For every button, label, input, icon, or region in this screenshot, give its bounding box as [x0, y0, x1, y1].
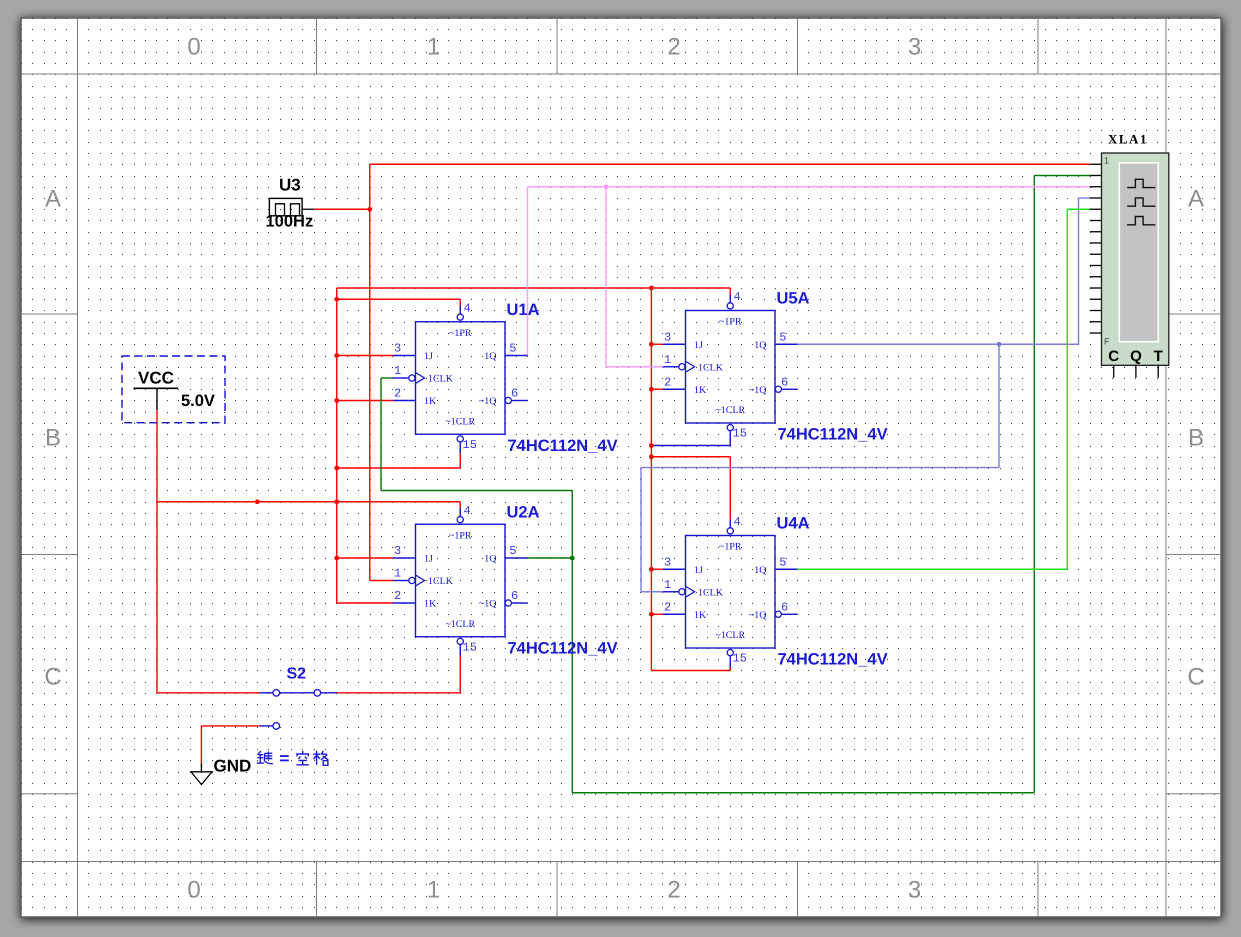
svg-text:~1Q: ~1Q: [479, 396, 497, 407]
wire: S2 lower throw to GND: [201, 725, 259, 727]
wire: clock net into U2A CLK pin 1: [370, 580, 393, 582]
svg-text:1K: 1K: [694, 385, 707, 396]
wire: VCC bus vertical x=336.75: [336, 288, 338, 603]
svg-text:5: 5: [779, 330, 786, 344]
svg-text:3: 3: [664, 330, 671, 344]
wire: VCC to U5A 1K pin 2: [651, 388, 663, 390]
svg-text:0: 0: [187, 34, 200, 61]
svg-text:2: 2: [664, 600, 671, 614]
wire: bright green net from U4A 1Q pin 5: [798, 568, 1068, 570]
svg-text:1: 1: [664, 578, 671, 592]
svg-text:T: T: [1154, 348, 1163, 365]
svg-text:1: 1: [427, 34, 440, 61]
svg-text:5: 5: [509, 544, 516, 558]
junction: pink net node: [604, 184, 609, 189]
svg-text:~1CLR: ~1CLR: [715, 630, 745, 641]
svg-text:Q: Q: [1130, 348, 1142, 365]
wire: clock net U3 output to junction: [314, 208, 370, 210]
svg-text:C: C: [44, 664, 61, 691]
svg-text:C: C: [1108, 348, 1119, 365]
svg-text:6: 6: [511, 589, 518, 603]
XLA1 bottom pins C, Q, T: [1108, 348, 1163, 378]
wire: purple net branch down x=999: [998, 344, 1000, 467]
wire: VCC to U2A 1K pin 2: [337, 602, 393, 604]
switch S2 (SPDT, key = space): [260, 690, 338, 730]
wire: U5A ~1CLR pin 15 to VCC bus (blue wire): [651, 438, 730, 446]
wire: VCC to U4A ~1PR pin 4: [651, 456, 730, 458]
wire: dark green net vertical x=572.25: [571, 491, 573, 793]
svg-text:~1PR: ~1PR: [719, 542, 742, 553]
svg-text:~1CLR: ~1CLR: [445, 416, 475, 427]
svg-text:1J: 1J: [424, 554, 433, 565]
svg-text:74HC112N_4V: 74HC112N_4V: [778, 426, 888, 444]
svg-text:1: 1: [427, 877, 440, 904]
svg-text:1J: 1J: [694, 565, 703, 576]
wire: VCC to U1A ~1PR pin 4: [337, 298, 461, 300]
svg-text:4: 4: [464, 301, 471, 315]
wire: dark green net bottom horizontal y=792.75: [572, 792, 1034, 794]
svg-text:1: 1: [394, 567, 401, 581]
svg-text:4: 4: [734, 515, 741, 529]
svg-text:1J: 1J: [694, 340, 703, 351]
equals sign of key label: [280, 755, 289, 761]
svg-text:F: F: [1104, 337, 1110, 347]
JK flip-flop U2A (74HC112N_4V): [393, 508, 528, 656]
svg-text:~1Q: ~1Q: [749, 610, 767, 621]
clock source U3 100Hz: [269, 198, 314, 215]
svg-text:C: C: [1187, 664, 1204, 691]
wire: VCC bus top horizontal y=288 to U5A bus: [337, 287, 652, 289]
svg-text:U5A: U5A: [777, 290, 810, 308]
svg-text:1K: 1K: [424, 396, 437, 407]
wire: clock net top horizontal to XLA1 pin 1: [370, 163, 1090, 165]
svg-text:2: 2: [664, 375, 671, 389]
svg-text:3: 3: [908, 34, 921, 61]
svg-text:2: 2: [394, 589, 401, 603]
wire: dark green net U2A 1Q to U1A 1CLK: [381, 377, 393, 379]
wire: VCC to U4A 1K pin 2: [651, 613, 663, 615]
wire: VCC to U4A 1J pin 3: [651, 568, 663, 570]
svg-text:A: A: [1188, 186, 1204, 213]
wire: VCC to U5A 1J pin 3: [651, 343, 663, 345]
svg-text:1: 1: [394, 364, 401, 378]
svg-text:4: 4: [464, 504, 471, 518]
svg-text:5: 5: [779, 555, 786, 569]
svg-text:1CLK: 1CLK: [428, 374, 454, 385]
wire: pink net from U1A 1Q pin 5 up: [527, 187, 529, 356]
wire: purple net down x=641 to U4A 1CLK: [640, 468, 642, 592]
svg-text:1J: 1J: [424, 351, 433, 362]
JK flip-flop U4A (74HC112N_4V): [663, 520, 798, 668]
wire: VCC to U5A ~1PR pin 4: [651, 287, 730, 289]
svg-text:~1CLR: ~1CLR: [715, 405, 745, 416]
svg-text:~1Q: ~1Q: [479, 599, 497, 610]
svg-text:U1A: U1A: [507, 301, 540, 319]
svg-text:~1Q: ~1Q: [749, 385, 767, 396]
svg-text:1K: 1K: [424, 599, 437, 610]
svg-text:3: 3: [394, 544, 401, 558]
wire: U2A ~1CLR pin 15 down to S2 pole: [459, 652, 461, 693]
pin numbers U2A: 4, 3, 1, 2, 5, 6, 15: [394, 504, 518, 655]
svg-text:1Q: 1Q: [754, 340, 767, 351]
svg-text:~1PR: ~1PR: [719, 317, 742, 328]
svg-text:6: 6: [511, 387, 518, 401]
junction: VCC bus x=336.75 nodes: [334, 297, 339, 561]
wire: dark green net from U2A 1Q pin 5: [528, 557, 573, 559]
pin numbers U1A: 4, 3, 1, 2, 5, 6, 15: [394, 301, 518, 452]
svg-text:1CLK: 1CLK: [698, 362, 724, 373]
wire: VCC to U1A 1K pin 2: [337, 400, 393, 402]
JK flip-flop U1A (74HC112N_4V): [393, 306, 528, 454]
wire: purple net from U5A 1Q pin 5: [798, 343, 1079, 345]
wire: VCC bus bottom to U4A ~1CLR pin 15: [651, 670, 730, 672]
key label: 键 = 空格 (key = space): [257, 751, 273, 764]
junction: U3 output node: [367, 207, 372, 212]
svg-text:74HC112N_4V: 74HC112N_4V: [508, 639, 618, 657]
svg-text:6: 6: [781, 375, 788, 389]
wire: bright green net vertical x=1067.25 up to XLA1 pin 5: [1066, 209, 1068, 569]
wire: pink net branch down x=606 to U5A 1CLK: [605, 187, 607, 367]
svg-text:100Hz: 100Hz: [266, 213, 314, 231]
svg-text:2: 2: [667, 34, 680, 61]
ground GND: [191, 764, 212, 785]
wire: VCC net drop into U2A ~1PR pin 4: [459, 502, 461, 512]
svg-text:S2: S2: [287, 666, 307, 683]
pin numbers U5A: 4, 3, 1, 2, 5, 6, 15: [664, 290, 788, 441]
svg-text:1CLK: 1CLK: [428, 576, 454, 587]
svg-text:U2A: U2A: [507, 503, 540, 521]
wire: VCC net vertical from VCC symbol down to S2: [156, 410, 158, 693]
svg-text:3: 3: [664, 555, 671, 569]
svg-text:1: 1: [664, 353, 671, 367]
svg-text:~1PR: ~1PR: [449, 328, 472, 339]
svg-text:1Q: 1Q: [484, 554, 497, 565]
XLA1 left input pin stubs 1-16: [1090, 164, 1102, 333]
wire: VCC to U2A 1J pin 3: [337, 557, 393, 559]
svg-text:3: 3: [394, 342, 401, 356]
wire: VCC to U1A ~1CLR pin 15: [337, 467, 461, 469]
svg-text:A: A: [45, 186, 61, 213]
svg-text:15: 15: [463, 640, 477, 654]
svg-text:~1PR: ~1PR: [449, 530, 472, 541]
svg-text:1Q: 1Q: [484, 351, 497, 362]
svg-text:3: 3: [908, 877, 921, 904]
wire: VCC to S2 left throw: [157, 692, 260, 694]
junction: VCC bus x=651.4 nodes: [649, 286, 654, 617]
svg-text:6: 6: [781, 600, 788, 614]
svg-text:U4A: U4A: [777, 515, 810, 533]
wire: VCC bus vertical x=651.4: [650, 288, 652, 671]
svg-text:2: 2: [667, 877, 680, 904]
svg-text:B: B: [45, 425, 61, 452]
svg-text:15: 15: [733, 427, 747, 441]
junction: purple net node: [997, 342, 1002, 347]
svg-text:~1CLR: ~1CLR: [445, 619, 475, 630]
svg-text:1K: 1K: [694, 610, 707, 621]
svg-text:5: 5: [509, 342, 516, 356]
pin numbers U4A: 4, 3, 1, 2, 5, 6, 15: [664, 515, 788, 666]
wire: purple net vertical x=1078.5 up to XLA1 pin 4: [1078, 198, 1080, 344]
JK flip-flop U5A (74HC112N_4V): [663, 295, 798, 443]
wire: purple net horizontal y=467.6: [641, 467, 999, 469]
svg-text:U3: U3: [279, 176, 301, 195]
logic analyzer XLA1: [1102, 153, 1169, 365]
svg-text:2: 2: [394, 387, 401, 401]
svg-text:XLA1: XLA1: [1108, 132, 1148, 147]
junction: VCC horizontal node x=257.25: [255, 499, 260, 504]
svg-text:15: 15: [733, 652, 747, 666]
svg-text:74HC112N_4V: 74HC112N_4V: [508, 437, 618, 455]
wire: VCC net horizontal y=501.75 to U2A ~1PR: [157, 501, 461, 503]
svg-text:1CLK: 1CLK: [698, 587, 724, 598]
svg-text:1: 1: [1104, 156, 1109, 166]
svg-text:B: B: [1188, 425, 1204, 452]
svg-text:1Q: 1Q: [754, 565, 767, 576]
svg-text:VCC: VCC: [138, 369, 174, 388]
svg-text:15: 15: [463, 438, 477, 452]
svg-text:4: 4: [734, 290, 741, 304]
wire: clock net vertical x=369.75 down to U2A CLK: [369, 164, 371, 580]
wire: pink net horizontal y=186.75 to XLA1 pin 3: [528, 186, 1090, 188]
svg-text:GND: GND: [214, 757, 252, 776]
svg-text:0: 0: [187, 877, 200, 904]
svg-text:5.0V: 5.0V: [181, 392, 215, 410]
junction: dark green net node: [570, 556, 575, 561]
power symbol VCC 5.0V: [122, 356, 225, 423]
wire: dark green net vertical x=1034.25 up to XLA1 pin 2: [1033, 176, 1035, 793]
wire: VCC to U1A 1J pin 3: [337, 355, 393, 357]
svg-text:74HC112N_4V: 74HC112N_4V: [778, 651, 888, 669]
